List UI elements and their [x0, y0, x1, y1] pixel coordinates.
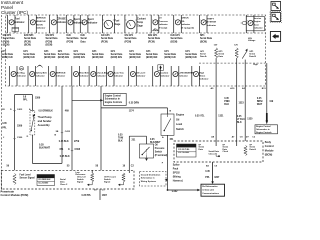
svg-text:GP1: GP1 [111, 51, 116, 53]
svg-text:Serial Data: Serial Data [111, 53, 123, 56]
svg-text:Gage: Gage [115, 24, 121, 26]
svg-text:Serial Data: Serial Data [148, 37, 161, 40]
svg-text:GP1: GP1 [92, 51, 97, 53]
svg-text:3D: 3D [2, 109, 5, 111]
svg-text:Indicator: Indicator [254, 27, 263, 30]
svg-text:IGN: IGN [67, 35, 71, 37]
svg-text:C413: C413 [65, 130, 71, 133]
svg-text:Engine Controls: Engine Controls [256, 131, 272, 134]
svg-text:LT BLU/: LT BLU/ [237, 119, 246, 121]
svg-text:IGN GP1: IGN GP1 [171, 35, 181, 37]
svg-text:Indicator: Indicator [79, 74, 88, 77]
svg-text:Cluster (IPC): Cluster (IPC) [1, 10, 29, 15]
svg-text:(BCM) IGN: (BCM) IGN [1, 57, 13, 59]
svg-text:(BCM) IGN: (BCM) IGN [92, 57, 104, 59]
svg-text:(BCM) IGN: (BCM) IGN [23, 57, 35, 59]
svg-text:1807: 1807 [214, 177, 220, 179]
svg-text:BLK: BLK [224, 104, 229, 106]
svg-text:Serial Data: Serial Data [3, 37, 16, 40]
svg-text:0.35: 0.35 [150, 139, 155, 141]
svg-text:Indicator: Indicator [114, 74, 123, 77]
svg-text:(BCM): (BCM) [171, 41, 178, 43]
svg-text:Coolant: Coolant [160, 71, 168, 74]
svg-text:Indicator: Indicator [160, 74, 169, 77]
svg-text:Safety Belt: Safety Belt [35, 71, 47, 74]
svg-text:BLK: BLK [118, 141, 123, 143]
svg-text:Clock: Clock [223, 151, 229, 153]
svg-text:0.8 ORN/BLK: 0.8 ORN/BLK [39, 110, 54, 112]
svg-text:CRUISE: CRUISE [57, 19, 66, 21]
svg-text:GP1: GP1 [185, 51, 190, 53]
svg-text:and Sender: and Sender [38, 119, 52, 123]
svg-text:Oil: Oil [176, 118, 180, 121]
svg-text:Ground Distribution: Ground Distribution [141, 174, 161, 177]
svg-text:0.35: 0.35 [205, 171, 210, 173]
svg-text:Air Bag: Air Bag [17, 71, 25, 74]
svg-text:Serial Data: Serial Data [58, 53, 70, 56]
svg-text:(if equipped): (if equipped) [181, 28, 194, 30]
svg-text:Coolant: Coolant [137, 18, 146, 21]
svg-text:TAN/: TAN/ [118, 137, 124, 140]
svg-text:COMP ID: COMP ID [38, 176, 47, 178]
svg-text:Indicator: Indicator [57, 21, 67, 24]
svg-text:GN NP1: GN NP1 [3, 35, 12, 37]
svg-text:Data A: Data A [200, 55, 207, 58]
svg-text:0.35: 0.35 [237, 116, 242, 118]
svg-text:Serial Data: Serial Data [101, 37, 114, 40]
svg-text:Indicator: Indicator [199, 77, 208, 80]
svg-text:Serial Data: Serial Data [23, 53, 35, 56]
svg-text:GP1: GP1 [58, 51, 63, 53]
svg-text:C/O 75+ BK2: C/O 75+ BK2 [178, 152, 189, 154]
svg-text:Data B: Data B [249, 55, 256, 58]
svg-text:(PCM): (PCM) [24, 41, 31, 43]
svg-text:Oil Level: Oil Level [136, 72, 146, 74]
svg-text:Pressure: Pressure [159, 21, 169, 23]
svg-text:in Data Link: in Data Link [202, 188, 215, 191]
svg-text:GN GP1: GN GP1 [125, 35, 134, 37]
svg-text:Schematics in: Schematics in [256, 128, 270, 131]
svg-text:Class 2: Class 2 [209, 154, 217, 156]
svg-text:Serial Data: Serial Data [44, 53, 56, 56]
svg-text:Switch: Switch [176, 128, 184, 131]
svg-text:Indicator: Indicator [15, 21, 25, 24]
svg-text:Indicator: Indicator [181, 23, 190, 26]
svg-text:Level: Level [176, 123, 183, 126]
svg-text:2759: 2759 [74, 141, 80, 143]
svg-text:(BCM) IGN: (BCM) IGN [44, 57, 56, 59]
svg-text:Rear Belt: Rear Belt [79, 71, 89, 74]
svg-text:(BCM) IGN: (BCM) IGN [129, 57, 141, 59]
svg-text:Engine Control: Engine Control [256, 125, 271, 128]
svg-text:IGN: IGN [81, 35, 85, 37]
svg-text:Indicator: Indicator [207, 24, 216, 27]
svg-text:Indicator: Indicator [35, 74, 44, 77]
svg-text:C/O 22-75 BL: C/O 22-75 BL [178, 149, 190, 151]
svg-text:Indicator: Indicator [159, 23, 168, 26]
svg-text:(PCM): (PCM) [125, 41, 132, 43]
svg-text:12V: 12V [234, 45, 238, 47]
svg-text:(BCM) IGN: (BCM) IGN [58, 57, 70, 59]
svg-text:Switch: Switch [155, 150, 163, 153]
svg-text:Data: Data [81, 40, 87, 43]
svg-text:GP1: GP1 [23, 51, 28, 53]
svg-text:Serial Data: Serial Data [92, 53, 104, 56]
svg-text:Communications: Communications [202, 192, 220, 195]
svg-text:Serial Data: Serial Data [164, 53, 176, 56]
svg-text:0.35: 0.35 [257, 98, 262, 100]
svg-text:(BCM) IGN: (BCM) IGN [164, 57, 176, 59]
svg-text:Oil: Oil [155, 145, 158, 147]
svg-text:1589: 1589 [35, 98, 41, 100]
svg-text:PPL: PPL [205, 177, 210, 179]
svg-text:NP1: NP1 [200, 35, 205, 37]
svg-text:1807: 1807 [102, 195, 108, 197]
svg-text:Harness): Harness) [173, 180, 183, 182]
svg-text:Serial Data: Serial Data [67, 37, 80, 40]
svg-text:(BCM) IGN: (BCM) IGN [74, 57, 86, 59]
svg-text:Serial Data: Serial Data [185, 53, 197, 56]
svg-text:Splice: Splice [173, 164, 180, 166]
svg-text:Pack: Pack [173, 168, 179, 170]
svg-text:Serial Data: Serial Data [125, 37, 138, 40]
svg-text:0.35: 0.35 [118, 135, 123, 137]
svg-text:Serial Data: Serial Data [1, 53, 13, 56]
svg-text:GN GP1: GN GP1 [101, 35, 110, 37]
svg-text:GP1: GP1 [44, 51, 49, 53]
svg-text:(F-body): (F-body) [159, 28, 168, 30]
svg-text:0.35 YEL: 0.35 YEL [195, 115, 205, 117]
svg-text:Indicator: Indicator [88, 21, 98, 24]
svg-text:Oil: Oil [159, 18, 162, 20]
svg-text:(PCM): (PCM) [3, 41, 10, 43]
svg-text:Serial Data: Serial Data [171, 37, 184, 40]
svg-text:1320: 1320 [247, 119, 253, 121]
svg-text:Service: Service [254, 18, 262, 20]
svg-text:Voltage: Voltage [248, 39, 256, 42]
svg-text:(PCM): (PCM) [148, 41, 155, 43]
svg-text:(PCM): (PCM) [46, 41, 53, 43]
svg-text:Soon: Soon [254, 24, 260, 26]
svg-text:Indicator: Indicator [136, 74, 145, 77]
svg-text:GP1: GP1 [1, 51, 6, 53]
svg-text:Signal: Signal [77, 182, 84, 184]
svg-text:(P terminal): (P terminal) [155, 154, 168, 157]
svg-text:Engine: Engine [254, 21, 262, 23]
svg-text:Indicator: Indicator [56, 74, 65, 77]
svg-text:(PCM): (PCM) [101, 41, 108, 43]
svg-text:Engine Control: Engine Control [105, 94, 121, 97]
svg-text:Class 2: Class 2 [60, 184, 68, 186]
svg-text:0.35 PPL: 0.35 PPL [82, 195, 92, 197]
svg-text:Fuel Level: Fuel Level [20, 175, 31, 177]
svg-text:1174: 1174 [129, 109, 135, 112]
svg-text:Ref Schematics: Ref Schematics [202, 185, 218, 188]
svg-text:SERVICE: SERVICE [56, 72, 66, 74]
svg-text:(Wiring: (Wiring [173, 176, 181, 178]
svg-text:Body: Body [265, 141, 272, 144]
svg-text:(BCM) IGN: (BCM) IGN [146, 57, 158, 59]
svg-text:Beam: Beam [199, 75, 205, 77]
svg-text:High: High [253, 64, 258, 66]
svg-text:Pressure: Pressure [155, 147, 165, 150]
svg-text:Temp: Temp [137, 22, 144, 24]
svg-text:Schematics in: Schematics in [105, 98, 121, 101]
svg-text:Module: Module [265, 149, 274, 152]
svg-text:IGN GP1: IGN GP1 [148, 35, 158, 37]
svg-text:Serial Data: Serial Data [46, 37, 59, 40]
svg-text:BRN/: BRN/ [257, 101, 263, 103]
svg-text:BLK/WHT: BLK/WHT [39, 147, 51, 150]
svg-text:Serial Data: Serial Data [24, 37, 37, 40]
svg-text:Serial Data: Serial Data [200, 37, 213, 40]
svg-text:(BCM): (BCM) [200, 41, 207, 43]
svg-text:CHECK: CHECK [181, 18, 189, 20]
svg-text:Indicator: Indicator [97, 74, 106, 77]
svg-text:Wiring Systems: Wiring Systems [141, 180, 157, 183]
svg-text:0.35: 0.35 [2, 123, 7, 125]
svg-text:GP1: GP1 [164, 51, 169, 53]
svg-text:Fuel: Fuel [15, 19, 20, 21]
svg-text:1589: 1589 [17, 126, 23, 128]
svg-text:C308: C308 [75, 149, 81, 151]
svg-text:Indicator: Indicator [36, 27, 45, 30]
svg-text:Signal: Signal [104, 182, 111, 184]
svg-text:(PCM): (PCM) [67, 41, 74, 43]
svg-text:WHT: WHT [257, 104, 263, 106]
svg-text:High: High [199, 72, 205, 74]
svg-text:GP1: GP1 [146, 51, 151, 53]
svg-text:C413: C413 [17, 108, 23, 111]
svg-text:GN NP1: GN NP1 [46, 35, 55, 37]
svg-text:SOON: SOON [36, 24, 43, 26]
svg-text:Indicator: Indicator [179, 74, 188, 77]
svg-text:COMP ID: COMP ID [178, 146, 187, 148]
svg-text:Sensor Signal: Sensor Signal [20, 176, 35, 179]
svg-text:Engine: Engine [176, 114, 185, 117]
svg-text:0.35: 0.35 [224, 98, 229, 100]
svg-text:Control: Control [265, 145, 274, 148]
svg-text:12V: 12V [214, 45, 218, 47]
svg-text:GP1: GP1 [129, 51, 134, 53]
svg-text:Control Module (PCM): Control Module (PCM) [1, 193, 29, 197]
svg-text:C300: C300 [17, 137, 23, 139]
svg-text:Fuel: Fuel [115, 21, 120, 23]
svg-text:0.35 DRN: 0.35 DRN [129, 103, 139, 105]
svg-text:(BCM) IGN: (BCM) IGN [111, 57, 123, 59]
svg-text:SYSTEM: SYSTEM [207, 22, 216, 24]
svg-text:(BCM): (BCM) [46, 45, 53, 47]
svg-text:Sport: Sport [88, 18, 94, 21]
svg-text:Indicator: Indicator [17, 74, 26, 77]
svg-text:G102: G102 [172, 191, 178, 193]
svg-text:VEHICLE: VEHICLE [36, 21, 46, 23]
svg-text:C/O RED BLK: C/O RED BLK [38, 179, 51, 181]
svg-text:Gage: Gage [137, 25, 143, 27]
svg-text:(BCM): (BCM) [265, 154, 273, 157]
svg-text:SP102: SP102 [173, 172, 181, 174]
svg-text:Serial Data: Serial Data [129, 53, 141, 56]
svg-text:*Fuel Pump: *Fuel Pump [38, 115, 52, 119]
svg-text:GP1: GP1 [74, 51, 79, 53]
svg-text:C0+75 BK9: C0+75 BK9 [38, 183, 48, 185]
svg-text:Serial: Serial [81, 38, 88, 40]
svg-text:(BCM): (BCM) [3, 45, 10, 47]
svg-text:1321: 1321 [218, 115, 224, 117]
svg-text:Auto Trac: Auto Trac [114, 71, 125, 74]
svg-text:Sport: Sport [74, 18, 80, 21]
svg-text:1323: 1323 [239, 102, 245, 104]
svg-text:(BCM) IGN: (BCM) IGN [185, 57, 197, 59]
svg-text:E2N NP1: E2N NP1 [24, 35, 34, 37]
svg-text:SERVICE: SERVICE [36, 18, 46, 20]
svg-text:Serial Data: Serial Data [146, 53, 158, 56]
svg-text:Engine Controls: Engine Controls [105, 101, 123, 104]
svg-text:0.35 BLK: 0.35 BLK [59, 141, 69, 143]
svg-text:0.35 BLK: 0.35 BLK [60, 156, 70, 158]
svg-text:PPL: PPL [2, 128, 7, 130]
svg-text:Serial Data: Serial Data [74, 53, 86, 56]
svg-text:THEFT: THEFT [207, 18, 215, 20]
svg-text:Schematics in: Schematics in [141, 177, 156, 180]
svg-text:Powertrain: Powertrain [1, 190, 15, 194]
svg-text:Assembly: Assembly [38, 123, 51, 127]
svg-text:(BCM): (BCM) [24, 45, 31, 47]
svg-text:PNK/: PNK/ [224, 101, 230, 103]
svg-text:Data A: Data A [250, 148, 257, 151]
svg-text:BLK/WHT: BLK/WHT [150, 142, 161, 144]
svg-text:BLK: BLK [237, 122, 242, 124]
svg-text:3B: 3B [56, 131, 59, 133]
svg-text:PPL: PPL [23, 100, 28, 102]
